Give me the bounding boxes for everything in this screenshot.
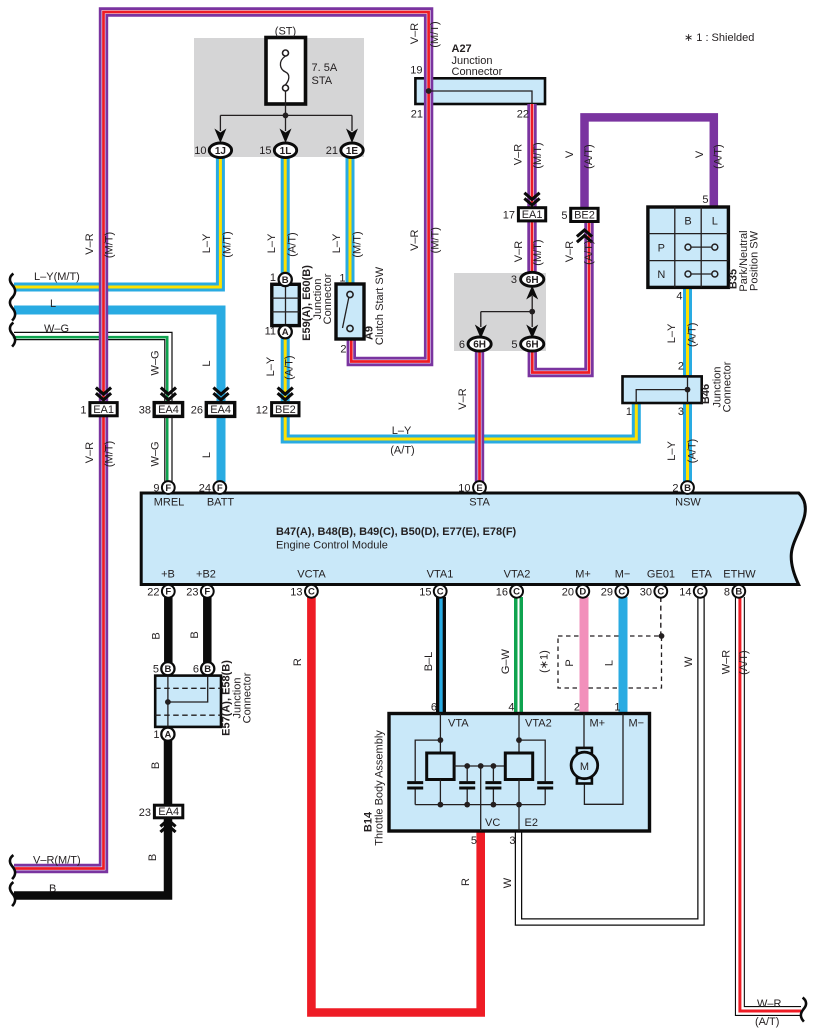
svg-text:1: 1 xyxy=(339,273,345,285)
svg-text:1: 1 xyxy=(153,729,159,741)
svg-text:11: 11 xyxy=(265,326,276,338)
svg-text:V–R: V–R xyxy=(84,442,96,463)
svg-text:26: 26 xyxy=(191,405,203,417)
svg-text:1: 1 xyxy=(626,406,632,418)
svg-text:V–R: V–R xyxy=(564,241,576,262)
svg-text:7. 5A: 7. 5A xyxy=(312,62,338,74)
svg-text:23: 23 xyxy=(186,586,198,598)
arrow into 6(6H) xyxy=(475,325,487,339)
svg-text:P: P xyxy=(658,242,665,254)
svg-text:(A/T): (A/T) xyxy=(755,1016,779,1028)
connector oval 5(6H) xyxy=(521,337,544,351)
ECM pin 16C VTA2 xyxy=(510,585,523,598)
wire label W-R A/T (ETHW) xyxy=(721,650,751,675)
wire V-R(M/T) EA1-17 to 3(6H) xyxy=(527,220,536,275)
svg-text:F: F xyxy=(165,587,171,598)
svg-text:W: W xyxy=(502,877,514,888)
E59 name xyxy=(301,265,334,341)
svg-text:STA: STA xyxy=(469,497,490,509)
svg-text:30: 30 xyxy=(640,586,652,598)
wire label V-R M/T upper left xyxy=(84,232,116,258)
junction dot below fuse xyxy=(283,113,289,119)
connector EA1 (pin17) with arrow xyxy=(518,193,545,221)
svg-text:ETHW: ETHW xyxy=(723,569,756,581)
svg-text:W–G: W–G xyxy=(44,323,69,335)
svg-text:M−: M− xyxy=(615,569,631,581)
svg-text:C: C xyxy=(618,587,625,598)
svg-text:M: M xyxy=(580,761,589,773)
svg-text:6H: 6H xyxy=(473,340,486,351)
wire L-Y(A/T) BE2-12 to B46 pin1 xyxy=(285,402,636,439)
svg-text:6: 6 xyxy=(431,702,437,714)
svg-text:24: 24 xyxy=(199,483,211,495)
svg-text:23: 23 xyxy=(139,807,151,819)
wire GE01 dashed shield drain xyxy=(660,597,662,636)
connector oval 3(6H) xyxy=(521,272,544,286)
ECM pin 10E STA xyxy=(473,481,486,494)
svg-text:B46: B46 xyxy=(700,384,712,404)
6H block internal: arrow up into 3(6H) xyxy=(526,286,538,300)
fuse 7.5A STA symbol xyxy=(266,38,306,105)
svg-text:B: B xyxy=(735,587,742,598)
svg-text:L–Y: L–Y xyxy=(666,323,678,343)
wire label L-Y M/T (1J) xyxy=(201,231,234,257)
throttle internal: right capacitor branch xyxy=(519,740,545,805)
svg-text:(M/T): (M/T) xyxy=(532,239,544,265)
svg-text:14: 14 xyxy=(679,586,691,598)
svg-text:(M/T): (M/T) xyxy=(104,232,116,258)
svg-text:E: E xyxy=(476,483,482,494)
A9 Clutch Start SW box xyxy=(336,284,364,339)
svg-text:6H: 6H xyxy=(526,340,539,351)
wire label V-R M/T (EA1-17 to 6H) xyxy=(513,239,544,265)
svg-text:(A/T): (A/T) xyxy=(583,240,595,264)
E59 pin1 oval B xyxy=(279,273,292,286)
ECM pin 29C M- xyxy=(615,585,628,598)
svg-text:38: 38 xyxy=(139,405,151,417)
svg-text:(A/T): (A/T) xyxy=(738,650,750,674)
arrow into 5(6H) xyxy=(526,325,538,339)
left brace L-Y(M/T) xyxy=(10,274,15,298)
svg-text:EA4: EA4 xyxy=(158,404,179,416)
throttle internal: left capacitor branch xyxy=(415,740,440,805)
svg-text:B: B xyxy=(282,275,289,286)
svg-text:B: B xyxy=(147,854,159,861)
svg-text:BE2: BE2 xyxy=(275,404,296,416)
svg-text:(A/T): (A/T) xyxy=(390,445,414,457)
svg-text:16: 16 xyxy=(496,586,508,598)
svg-text:B: B xyxy=(204,664,211,675)
shield dot at dashed box corner xyxy=(659,633,665,639)
svg-text:Engine Control Module: Engine Control Module xyxy=(276,540,388,552)
svg-text:21: 21 xyxy=(411,109,423,121)
E57 pin1 oval A xyxy=(161,728,174,741)
wire label L-Y M/T (1E) xyxy=(331,231,364,257)
svg-text:L: L xyxy=(201,452,213,458)
A9 name xyxy=(364,266,387,345)
svg-text:4: 4 xyxy=(508,702,514,714)
svg-text:V: V xyxy=(564,150,576,158)
svg-text:BE2: BE2 xyxy=(574,210,595,222)
svg-text:2: 2 xyxy=(340,344,346,356)
wire V-R 6(6H) to STA xyxy=(475,350,484,482)
svg-text:21: 21 xyxy=(326,145,338,157)
svg-text:Connector: Connector xyxy=(242,672,254,723)
svg-text:(A/T): (A/T) xyxy=(583,144,595,168)
svg-text:E2: E2 xyxy=(525,817,538,829)
svg-text:5: 5 xyxy=(702,194,708,206)
svg-text:B: B xyxy=(684,216,691,228)
svg-text:D: D xyxy=(579,587,586,598)
svg-text:ETA: ETA xyxy=(691,569,712,581)
svg-text:9: 9 xyxy=(153,483,159,495)
B46 name xyxy=(700,361,734,412)
svg-text:(A/T): (A/T) xyxy=(686,439,698,463)
svg-text:+B2: +B2 xyxy=(196,569,216,581)
svg-text:L–Y: L–Y xyxy=(331,233,343,253)
ECM pin 13C VCTA xyxy=(305,585,318,598)
wire R VCTA to throttle VC xyxy=(311,597,480,1013)
wire P M+ to throttle pin2 xyxy=(580,597,589,715)
svg-text:EA1: EA1 xyxy=(93,404,114,416)
throttle internal: capacitor 2 xyxy=(466,766,468,805)
wire B +B to E57 pin5 xyxy=(164,597,173,663)
connector EA4 (pin23) with arrow up xyxy=(154,805,182,832)
svg-text:L–Y: L–Y xyxy=(392,425,412,437)
E59 pin11 oval A xyxy=(279,325,292,338)
A27 junction connector box xyxy=(415,78,545,104)
wire B E57 pin1 to EA4-23 xyxy=(164,740,173,807)
svg-text:∗ 1 : Shielded: ∗ 1 : Shielded xyxy=(684,32,754,44)
svg-text:C: C xyxy=(697,587,704,598)
wire label L-Y A/T (B46 to NSW) xyxy=(666,439,698,463)
svg-text:B: B xyxy=(164,664,171,675)
svg-text:C: C xyxy=(437,587,444,598)
wire L-Y(A/T) B35 pin4 to B46 pin2 xyxy=(683,287,692,378)
svg-text:17: 17 xyxy=(503,210,515,222)
svg-text:V–R: V–R xyxy=(409,229,421,250)
svg-text:L: L xyxy=(50,298,56,310)
wire L M- to throttle pin1 xyxy=(619,597,628,715)
E57 pin5 oval B xyxy=(161,662,174,675)
shielded wire dashed box (*1) xyxy=(558,636,662,688)
svg-text:W–R: W–R xyxy=(721,650,733,675)
svg-text:A27: A27 xyxy=(452,43,472,55)
svg-text:VTA1: VTA1 xyxy=(427,569,454,581)
svg-text:C: C xyxy=(513,587,520,598)
fuse output distribution lines xyxy=(220,91,352,131)
svg-text:V: V xyxy=(694,150,706,158)
B46 junction connector box xyxy=(623,376,702,403)
svg-text:5: 5 xyxy=(153,664,159,676)
svg-text:8: 8 xyxy=(724,586,730,598)
svg-text:B: B xyxy=(684,483,691,494)
svg-text:4: 4 xyxy=(676,291,682,303)
connector oval 1J xyxy=(209,143,231,158)
svg-text:15: 15 xyxy=(259,145,271,157)
wire label V-R M/T (below A27 pin21) xyxy=(409,227,441,253)
svg-text:L: L xyxy=(712,216,718,228)
svg-text:F: F xyxy=(165,483,171,494)
svg-text:L–Y: L–Y xyxy=(201,233,213,253)
arrow into 1E xyxy=(346,129,358,144)
svg-text:F: F xyxy=(204,587,210,598)
wire B-L VTA1 to throttle pin6 xyxy=(436,597,446,715)
svg-text:1L: 1L xyxy=(280,146,292,157)
svg-text:V–R: V–R xyxy=(513,241,525,262)
svg-text:MREL: MREL xyxy=(154,497,185,509)
throttle motor M xyxy=(584,714,623,805)
svg-text:(M/T): (M/T) xyxy=(429,227,441,253)
left brace V-R(M/T) bottom xyxy=(10,855,15,879)
throttle internal: VTA2 potentiometer square xyxy=(518,714,520,754)
svg-text:VTA2: VTA2 xyxy=(525,718,552,730)
svg-text:Clutch Start SW: Clutch Start SW xyxy=(374,266,386,345)
connector oval 6(6H) xyxy=(468,337,491,351)
svg-text:EA1: EA1 xyxy=(522,209,543,221)
gray relay block box (ST fuse area) xyxy=(194,38,364,157)
svg-text:Throttle Body Assembly: Throttle Body Assembly xyxy=(374,730,386,846)
svg-text:15: 15 xyxy=(419,586,431,598)
svg-text:EA4: EA4 xyxy=(210,404,231,416)
connector EA1 (pin1) with arrow xyxy=(90,388,117,416)
svg-text:(∗1): (∗1) xyxy=(539,650,551,673)
svg-text:+B: +B xyxy=(161,569,175,581)
wire label V-R M/T lower left xyxy=(84,441,116,467)
wire L-Y(M/T) 1E to A9 xyxy=(346,156,355,285)
svg-text:VTA: VTA xyxy=(448,718,469,730)
svg-text:EA4: EA4 xyxy=(158,806,179,818)
svg-text:N: N xyxy=(657,269,665,281)
throttle internal: wiper rail between pots xyxy=(454,765,505,767)
ECM pin 23F +B2 xyxy=(201,585,214,598)
ECM B47/B48/B49/B50/E77/E78 Engine Control Module box xyxy=(141,493,805,585)
left brace W-G xyxy=(10,323,15,347)
ECM pin 22F +B xyxy=(162,585,175,598)
E59(A),E60(B) junction connector box xyxy=(272,284,300,325)
svg-text:G–W: G–W xyxy=(500,648,512,674)
wire label V A/T (right) xyxy=(694,144,725,168)
wire label V A/T (left) xyxy=(564,144,595,168)
svg-text:W–G: W–G xyxy=(149,350,161,375)
wire L-Y(A/T) 1L to E59 xyxy=(281,156,290,274)
svg-text:A: A xyxy=(164,730,171,741)
svg-text:V–R: V–R xyxy=(409,23,421,44)
svg-text:1E: 1E xyxy=(346,146,359,157)
svg-text:5: 5 xyxy=(511,339,517,351)
svg-text:V–R(M/T): V–R(M/T) xyxy=(33,855,81,867)
connector oval 1E xyxy=(341,143,363,158)
wire V-R(M/T) main: brace,EA1-1,top run,A27,down to A9 pin2 xyxy=(14,12,429,869)
ECM pin 20D M+ xyxy=(576,585,589,598)
throttle internal: VC line xyxy=(480,766,482,831)
svg-text:19: 19 xyxy=(410,65,422,77)
throttle internal: ground rail xyxy=(415,804,545,806)
svg-text:(M/T): (M/T) xyxy=(429,21,441,47)
svg-text:(A/T): (A/T) xyxy=(686,323,698,347)
svg-text:B: B xyxy=(150,632,162,639)
svg-text:5: 5 xyxy=(561,210,567,222)
wire L-Y(M/T) brace to 1J xyxy=(14,156,220,287)
svg-text:VTA2: VTA2 xyxy=(504,569,531,581)
svg-text:(M/T): (M/T) xyxy=(104,441,116,467)
svg-text:C: C xyxy=(308,587,315,598)
wire W throttle E2 to ETA xyxy=(519,597,702,922)
svg-text:3: 3 xyxy=(511,274,517,286)
svg-text:6: 6 xyxy=(193,664,199,676)
gray box (6H connector area) xyxy=(454,273,546,351)
svg-text:(M/T): (M/T) xyxy=(352,231,364,257)
svg-text:VCTA: VCTA xyxy=(297,569,326,581)
svg-text:L–Y: L–Y xyxy=(666,441,678,461)
svg-text:(M/T): (M/T) xyxy=(532,142,544,168)
svg-text:Connector: Connector xyxy=(722,361,734,412)
right brace W-R(A/T) xyxy=(801,998,806,1022)
svg-text:V–R: V–R xyxy=(513,144,525,165)
junction dot in 6H block xyxy=(529,309,535,315)
svg-text:20: 20 xyxy=(562,586,574,598)
wire label L-Y A/T (E59 to BE2-12) xyxy=(265,355,295,379)
A27 internal bus line and junction dot xyxy=(429,91,532,104)
B14 Throttle Body Assembly box xyxy=(389,714,650,832)
wire V-R(M/T) A27 pin22 to EA1-17 xyxy=(527,104,536,209)
svg-text:Connector: Connector xyxy=(322,273,334,324)
svg-text:P: P xyxy=(564,659,576,666)
svg-text:1: 1 xyxy=(80,405,86,417)
svg-text:W–R: W–R xyxy=(757,998,782,1010)
svg-text:R: R xyxy=(292,658,304,666)
wire L (solid blue) brace to EA4-26 to BATT xyxy=(14,310,221,482)
B35 Park/Neutral Position SW box xyxy=(648,207,729,287)
svg-text:L: L xyxy=(201,360,213,366)
svg-text:B: B xyxy=(150,762,162,769)
ECM pin 9F MREL xyxy=(162,481,175,494)
svg-text:29: 29 xyxy=(601,586,613,598)
svg-text:22: 22 xyxy=(147,586,159,598)
ECM pin 30C GE01 xyxy=(654,585,667,598)
wire L-Y(A/T) E59 to BE2-12 xyxy=(281,337,290,403)
ECM pin 2B NSW xyxy=(681,481,694,494)
svg-text:L–Y(M/T): L–Y(M/T) xyxy=(34,271,80,283)
svg-text:1: 1 xyxy=(270,272,276,284)
arrow into 1J xyxy=(214,129,226,144)
B35 name xyxy=(728,230,761,291)
svg-text:10: 10 xyxy=(458,483,470,495)
svg-text:5: 5 xyxy=(471,835,477,847)
svg-text:3: 3 xyxy=(678,406,684,418)
svg-text:W: W xyxy=(683,656,695,667)
svg-text:B: B xyxy=(189,631,201,638)
wire label V-R M/T (A27 pin22) xyxy=(513,142,544,168)
ECM pin 8B ETHW xyxy=(732,585,745,598)
svg-text:L–Y: L–Y xyxy=(266,233,278,253)
svg-text:(A/T): (A/T) xyxy=(713,144,725,168)
svg-text:STA: STA xyxy=(312,75,333,87)
wire G-W VTA2 to throttle pin4 xyxy=(514,597,523,715)
svg-text:M−: M− xyxy=(629,718,645,730)
ECM pin 24F BATT xyxy=(213,481,226,494)
svg-text:1: 1 xyxy=(614,702,620,714)
svg-text:R: R xyxy=(460,878,472,886)
svg-text:B: B xyxy=(49,883,56,895)
svg-text:M+: M+ xyxy=(590,718,606,730)
svg-text:VC: VC xyxy=(485,817,500,829)
wire label L-Y A/T (1L) xyxy=(266,232,298,256)
svg-text:F: F xyxy=(217,483,223,494)
connector EA4 (pin26) with arrow xyxy=(206,388,234,417)
svg-text:W–G: W–G xyxy=(149,441,161,466)
wire label L-Y A/T (B35 to B46) xyxy=(666,323,698,347)
svg-text:Position SW: Position SW xyxy=(749,230,761,291)
E57 pin6 oval B xyxy=(201,662,214,675)
svg-text:10: 10 xyxy=(194,145,206,157)
svg-text:(M/T): (M/T) xyxy=(222,231,234,257)
svg-text:2: 2 xyxy=(678,361,684,373)
svg-text:12: 12 xyxy=(256,405,268,417)
connector EA4 (pin38) with arrow xyxy=(154,388,182,417)
svg-text:13: 13 xyxy=(290,586,302,598)
svg-text:1J: 1J xyxy=(215,146,226,157)
svg-text:(ST): (ST) xyxy=(275,26,296,38)
wire W-G brace to EA4-38 to MREL xyxy=(14,336,168,482)
wire label V-R M/T (top right) xyxy=(409,21,441,47)
E57 name xyxy=(221,660,254,736)
svg-text:BATT: BATT xyxy=(207,497,235,509)
svg-text:NSW: NSW xyxy=(675,497,701,509)
wire L-Y(A/T) B46 pin3 to NSW xyxy=(683,402,692,482)
svg-text:6: 6 xyxy=(459,339,465,351)
svg-text:V–R: V–R xyxy=(457,388,469,409)
throttle internal: capacitor 3 xyxy=(492,766,494,805)
wire B +B2 to E57 pin6 xyxy=(203,597,212,663)
svg-text:B47(A), B48(B), B49(C), B50(D): B47(A), B48(B), B49(C), B50(D), E77(E), … xyxy=(276,526,517,538)
wire V(A/T) BE2-5 to B35 pin5 xyxy=(585,117,714,209)
arrow into 1L xyxy=(280,129,292,144)
connector BE2 (pin12) with arrow xyxy=(272,388,299,416)
svg-text:C: C xyxy=(657,587,664,598)
wire W-R ETHW to right brace xyxy=(740,597,801,1011)
svg-text:3: 3 xyxy=(509,835,515,847)
svg-text:A: A xyxy=(282,327,289,338)
svg-text:2: 2 xyxy=(574,702,580,714)
left brace B bottom xyxy=(10,882,15,906)
svg-text:Connector: Connector xyxy=(452,66,503,78)
wire B EA4-23 to left brace xyxy=(14,817,168,896)
throttle internal: VTA potentiometer square xyxy=(439,714,441,754)
svg-text:(A/T): (A/T) xyxy=(283,355,295,379)
B14 name xyxy=(363,730,386,846)
svg-text:(A/T): (A/T) xyxy=(286,232,298,256)
ECM pin 15C VTA1 xyxy=(434,585,447,598)
svg-text:L: L xyxy=(604,660,616,666)
svg-text:V–R: V–R xyxy=(84,233,96,254)
left brace L xyxy=(10,297,15,321)
svg-text:6H: 6H xyxy=(526,275,539,286)
E57(A),E58(B) junction connector box xyxy=(155,676,221,727)
ECM pin 14C ETA xyxy=(694,585,707,598)
wire V-R(A/T) 5(6H) to BE2-5 xyxy=(532,222,589,373)
svg-text:M+: M+ xyxy=(575,569,591,581)
connector oval 1L xyxy=(274,143,296,158)
connector BE2 (pin5) with arrow up xyxy=(571,208,598,242)
wire label V-R A/T (to BE2-5) xyxy=(564,240,595,264)
svg-text:2: 2 xyxy=(672,483,678,495)
svg-text:B–L: B–L xyxy=(423,652,435,672)
svg-text:L–Y: L–Y xyxy=(265,356,277,376)
svg-text:22: 22 xyxy=(517,109,529,121)
svg-text:GE01: GE01 xyxy=(647,569,675,581)
